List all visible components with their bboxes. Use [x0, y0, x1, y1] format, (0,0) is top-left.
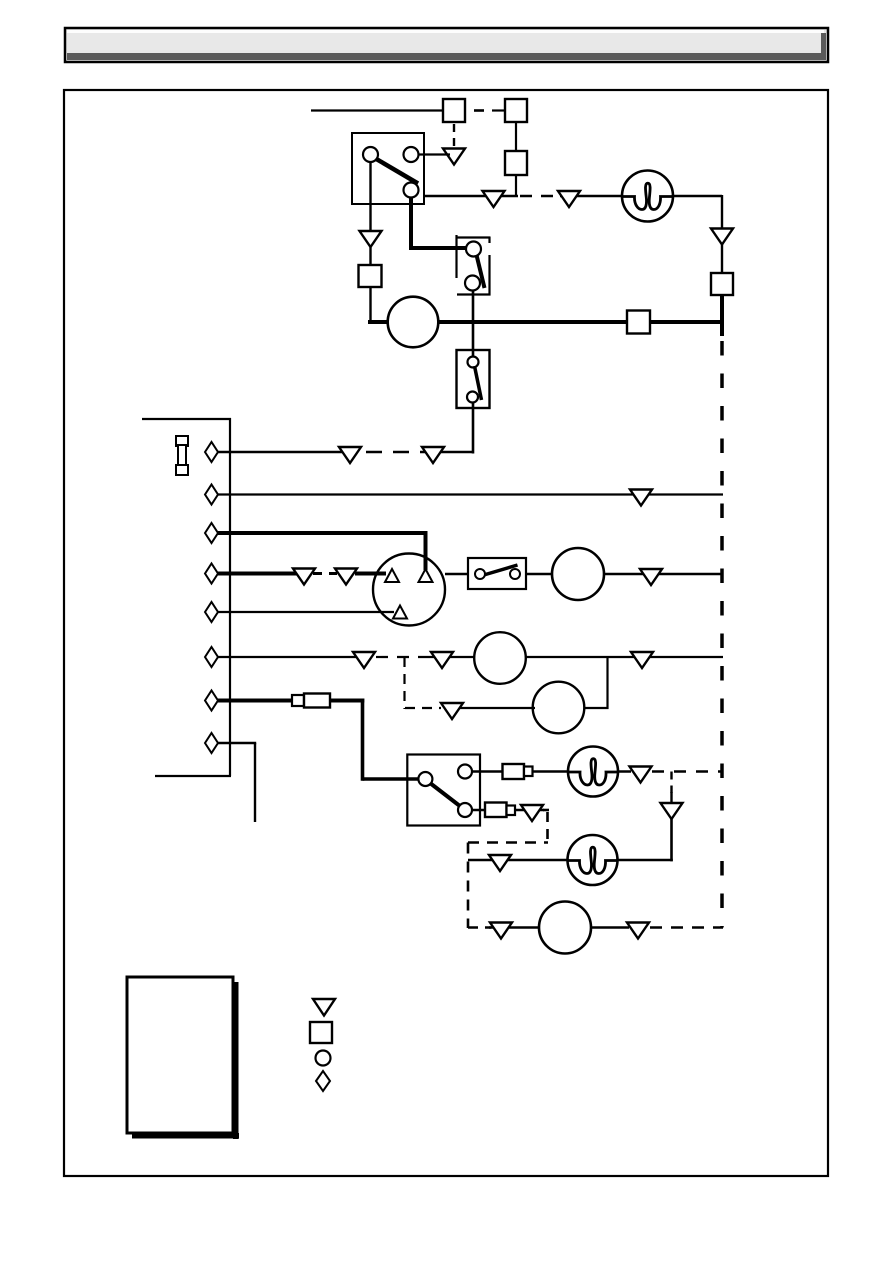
switch S1 contact c — [404, 183, 419, 198]
switch S3 blade — [475, 366, 482, 400]
switch S5 contact b — [458, 765, 472, 779]
wire row8 stub — [218, 743, 256, 822]
motor M1 — [388, 297, 439, 348]
inline connector J2 — [503, 764, 533, 779]
spade row6 c — [631, 652, 653, 668]
switch S5 contact c — [458, 803, 472, 817]
legend box — [127, 977, 233, 1133]
wire block F down — [369, 287, 371, 324]
connector block C — [505, 151, 527, 175]
legend terminal symbol — [316, 1071, 330, 1091]
spade row6 a — [353, 652, 375, 668]
switch S3 contact bottom — [467, 392, 478, 403]
wire S2 to S3 — [472, 290, 475, 357]
wire row6 left — [218, 656, 360, 658]
spade row1 b — [422, 447, 444, 463]
wire lamp2 row — [472, 770, 631, 773]
terminal T2 — [205, 485, 218, 505]
header bar — [65, 28, 828, 62]
solenoid SV — [552, 548, 604, 600]
legend spade symbol — [313, 999, 335, 1016]
wire riser stub — [670, 792, 672, 804]
overheat switch S3 box — [457, 350, 490, 408]
switch S4 contact a — [475, 569, 485, 579]
connector block F — [359, 265, 382, 287]
terminal T3 — [205, 523, 218, 543]
spade riser — [661, 803, 683, 819]
indicator lamp L1 — [622, 171, 673, 222]
wire S5c row — [472, 809, 544, 812]
wire row6 right — [430, 656, 723, 658]
indicator lamp L3 — [568, 835, 618, 885]
terminal T7 — [205, 691, 218, 711]
wire row7 thick — [218, 699, 364, 703]
wire lamp3 riser — [670, 817, 673, 861]
inline connector J3 — [485, 803, 515, 818]
wire row2 — [218, 493, 723, 495]
terminal T8 — [205, 733, 218, 753]
connector block A — [443, 99, 465, 122]
spade row6 b — [431, 652, 453, 668]
terminal T4 — [205, 564, 218, 584]
switch S2 blade — [477, 255, 485, 288]
wire dashed corner down — [543, 810, 549, 843]
wire branch dashed h — [405, 707, 441, 709]
wire relay common stem — [369, 158, 371, 232]
connector block E — [711, 273, 733, 295]
wire dashed drop from A — [453, 124, 455, 147]
wire solenoid to bus — [553, 573, 722, 575]
terminal T1 — [205, 442, 218, 462]
port pin GV-2 — [419, 569, 433, 582]
switch S1 contact a — [363, 147, 378, 162]
spade connector bus — [711, 229, 733, 245]
wire row1 dashed — [366, 451, 412, 453]
spade row4 b — [335, 569, 357, 585]
wire row3 — [218, 531, 428, 570]
spade connector on common stem — [360, 231, 382, 247]
switch S2 contact bottom — [465, 276, 480, 291]
micro switch S4 box — [468, 558, 526, 589]
inline connector J1 — [292, 694, 330, 708]
switch S3 contact top — [468, 357, 479, 368]
switch S1 contact b — [404, 147, 419, 162]
port pin GV-3 — [393, 606, 407, 619]
switch S5 blade — [430, 783, 461, 807]
spade lamp3 row — [489, 855, 511, 871]
wire bus dashed — [720, 341, 724, 928]
wire row6 dashed — [376, 656, 430, 658]
wire row4 left — [218, 572, 299, 576]
selector switch S5 box — [407, 755, 480, 826]
gas valve GV — [373, 554, 445, 626]
wire lamp2 dashed to bus — [652, 770, 722, 773]
legend block symbol — [310, 1022, 332, 1043]
control circle C2 — [533, 682, 585, 734]
terminal T6 — [205, 647, 218, 667]
spade pump right — [627, 923, 649, 939]
legend contact symbol — [316, 1051, 331, 1066]
wire main line — [368, 320, 722, 324]
wire S4 to solenoid — [526, 573, 553, 575]
control circle C1 — [474, 632, 526, 684]
wire row7 drop — [363, 699, 421, 781]
spade row2 — [630, 490, 652, 506]
wire pump row left — [489, 926, 540, 929]
pump P1 — [539, 902, 591, 954]
wire dashed down — [467, 843, 470, 929]
diagram border frame — [64, 90, 828, 1176]
wire bus top — [721, 195, 723, 230]
wire relay NO stem — [409, 193, 413, 250]
wire C down to lamp row — [515, 175, 517, 197]
wire lamp row left — [424, 195, 518, 197]
switch S4 blade — [477, 565, 518, 577]
switch S1 blade — [376, 159, 419, 184]
wire pump row right — [591, 926, 629, 929]
wire dashed link A-B — [474, 109, 506, 112]
wire lamp3 row — [468, 859, 673, 862]
wire S3 down to row1 — [472, 402, 475, 454]
wire lamp row right — [560, 195, 722, 197]
wire row1 left — [218, 451, 344, 453]
spade connector lamp row 1 — [483, 191, 505, 207]
wire riser dashed stub — [670, 772, 672, 794]
spade row1 a — [339, 447, 361, 463]
connector block B — [505, 99, 527, 122]
wire pump dashed to bus — [650, 926, 723, 929]
spade branch — [441, 703, 463, 719]
wire dashed across — [468, 841, 548, 844]
wire row1 right — [420, 451, 474, 453]
spade row4 c — [640, 569, 662, 585]
wire stem to block F — [369, 246, 371, 266]
wire branch dashed v — [403, 657, 405, 709]
spade S5c row — [521, 805, 543, 821]
wire relay to switch S2 — [409, 246, 467, 250]
wire GV to S4 — [445, 573, 469, 575]
port pin GV-1 — [385, 569, 399, 582]
wire branch T — [533, 657, 609, 709]
wire bus mid — [721, 244, 723, 274]
thermostat switch S2 box — [456, 235, 491, 296]
connector block D — [627, 311, 650, 334]
spade connector below A — [443, 149, 465, 165]
wire B down — [515, 122, 517, 152]
indicator lamp L2 — [568, 747, 618, 797]
switch S2 contact top — [466, 242, 481, 257]
terminal T5 — [205, 602, 218, 622]
legend box shadow — [132, 982, 239, 1139]
wire lamp row dashed — [520, 195, 560, 197]
switch S4 contact b — [510, 569, 520, 579]
wire S1 contact b out — [419, 153, 451, 155]
wire row4 dashed — [313, 572, 337, 575]
switch S5 contact a — [418, 772, 432, 786]
wire row7line left — [446, 707, 535, 709]
spade pump left — [490, 923, 512, 939]
spade lamp2 row — [630, 767, 652, 783]
terminal strip rail — [142, 418, 231, 776]
wire pump row dashed left — [468, 926, 491, 929]
wire bus thick — [720, 295, 724, 336]
wire row5 — [218, 611, 394, 613]
spade row4 a — [293, 569, 315, 585]
spade connector lamp row 2 — [558, 191, 580, 207]
selector switch S1 box — [352, 133, 424, 204]
wire mains feed — [311, 109, 444, 111]
fuse F1 — [176, 436, 188, 475]
wire row4 right — [355, 572, 386, 576]
